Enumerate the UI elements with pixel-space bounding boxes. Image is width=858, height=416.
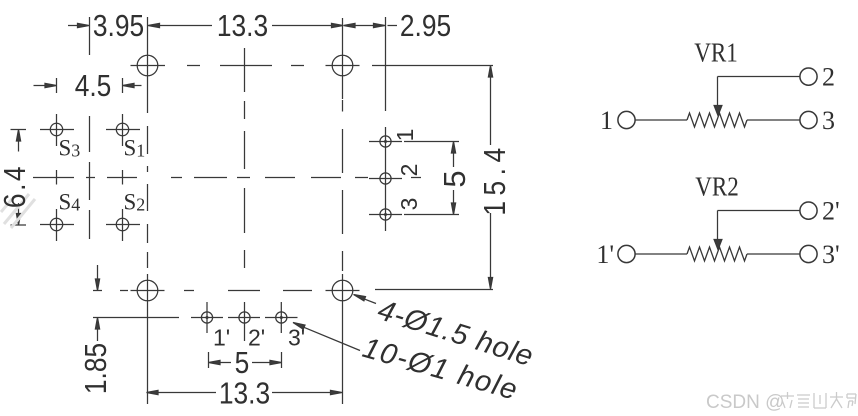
svg-text:1.85: 1.85 [79, 343, 113, 394]
svg-text:3: 3 [396, 198, 422, 211]
hole H4 bottom-right 1.5mm [326, 274, 360, 404]
terminal circle VR1-2 [800, 68, 817, 85]
svg-text:3': 3' [288, 325, 305, 351]
leader 4-d1.5 hole [354, 295, 377, 304]
svg-text:S3: S3 [59, 136, 81, 161]
dimension 5 pins 1'-3' [209, 352, 282, 368]
svg-text:13.3: 13.3 [219, 377, 270, 411]
dimension 6.4 left [11, 130, 27, 226]
resistor VR2 [687, 247, 747, 261]
wire VR2 left [635, 253, 687, 255]
terminal circle VR2-3' [800, 245, 817, 262]
hole H2 top-right 1.5mm [326, 18, 360, 99]
svg-text:1': 1' [213, 325, 230, 351]
dimension 5 pins 1-3 [404, 142, 459, 215]
svg-text:1': 1' [596, 240, 614, 269]
centerline horizontal y=177.5 [33, 177, 421, 179]
hole H3 bottom-left 1.5mm [131, 274, 165, 404]
pin S1 [106, 114, 140, 146]
wire VR2 right [747, 253, 800, 255]
centerline vertical x=385.3 pin column [385, 17, 387, 231]
pin 3 right column [369, 209, 402, 220]
svg-text:3': 3' [822, 240, 840, 269]
hole H1 top-left 1.5mm [131, 17, 166, 113]
tick marks S columns at centerline row [57, 170, 123, 185]
dimension 2.95 top [344, 23, 398, 27]
resistor VR1 [687, 113, 747, 127]
centerline horizontal y=291 [93, 290, 312, 292]
pin S2 [106, 209, 140, 241]
svg-text:1: 1 [392, 129, 418, 142]
terminal circle VR2-2' [800, 202, 817, 219]
dimension 1.85 bottom-left [93, 265, 179, 341]
svg-text:1: 1 [600, 106, 613, 135]
svg-text:2: 2 [396, 164, 422, 177]
svg-text:VR2: VR2 [695, 172, 739, 202]
svg-text:15.4: 15.4 [478, 142, 512, 215]
svg-text:2': 2' [822, 197, 840, 226]
svg-text:3.95: 3.95 [93, 9, 144, 43]
dimension 13.3 bottom [147, 390, 343, 394]
svg-text:2': 2' [248, 325, 265, 351]
svg-text:4.5: 4.5 [75, 69, 112, 103]
dimension 3.95 top [68, 23, 89, 27]
pin 1 right column [369, 136, 402, 147]
centerline vertical x=90 (3.95 extension) [89, 17, 91, 239]
terminal circle VR1-1 [618, 111, 635, 128]
leader 10-d1 hole [293, 323, 360, 351]
wire VR1 left [635, 119, 687, 121]
dimension 4.5 [34, 78, 142, 93]
svg-text:5: 5 [235, 346, 250, 380]
svg-text:5: 5 [437, 170, 472, 187]
wiper VR2 [714, 211, 800, 250]
svg-text:VR1: VR1 [694, 38, 738, 68]
centerline horizontal y=66 [187, 65, 304, 67]
svg-text:6.4: 6.4 [0, 164, 33, 208]
dimension 13.3 top [148, 23, 343, 27]
svg-text:S1: S1 [124, 136, 146, 161]
centerline vertical x=245 center column [244, 48, 246, 268]
terminal circle VR2-1' [618, 245, 635, 262]
wiper VR1 [714, 77, 800, 116]
pin 2 right column [369, 173, 402, 184]
svg-text:S2: S2 [124, 190, 146, 215]
pin S3 [40, 114, 74, 146]
svg-text:13.3: 13.3 [217, 9, 268, 43]
svg-text:3: 3 [822, 106, 835, 135]
pin 2' bottom row [228, 302, 260, 341]
centerline vertical x=342.5 dashed middle [342, 100, 344, 271]
dimension 15.4 right [372, 66, 493, 290]
terminal circle VR1-3 [800, 111, 817, 128]
pin S4 [40, 209, 74, 241]
svg-text:CSDN @: CSDN @ [706, 392, 784, 413]
centerline vertical x=147.5 dashed middle [147, 126, 149, 268]
svg-text:2.95: 2.95 [400, 9, 451, 43]
wire VR1 right [747, 119, 800, 121]
watermark diagonal artifact [1, 194, 35, 228]
svg-text:2: 2 [822, 63, 835, 92]
pin 1' bottom row [191, 302, 223, 333]
svg-text:S4: S4 [59, 190, 81, 215]
pin 3' bottom row [265, 302, 298, 333]
